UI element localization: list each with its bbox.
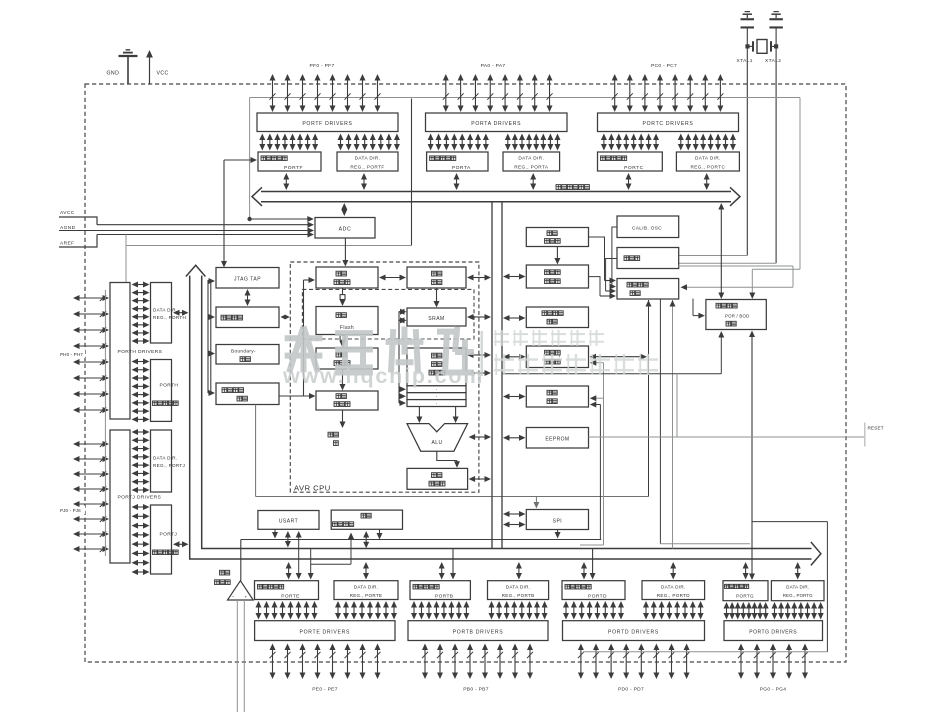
arrow into JTAG TAP (209, 278, 216, 284)
data direction register PORTE box (334, 581, 398, 600)
arrow stack pointer to data bus (467, 275, 491, 281)
EEPROM box (526, 428, 588, 449)
svg-text:PORTC: PORTC (624, 165, 644, 171)
watchdog timer box (526, 265, 588, 288)
arrow status register to data bus (469, 476, 491, 482)
label control lines (328, 432, 338, 445)
watermark text 元器件在线商城 (494, 354, 658, 375)
wire gray vertical to ADC with junction dot (247, 98, 313, 223)
capacitor C1 at XTAL1 (741, 15, 755, 29)
svg-text:PORTH: PORTH (160, 382, 179, 388)
label PORTH drivers (116, 347, 176, 355)
svg-text:DATA DIR.: DATA DIR. (786, 584, 809, 589)
capacitor C2 at XTAL2 (769, 15, 783, 29)
pin label GND (107, 71, 120, 77)
watermark divider bar (481, 331, 483, 376)
arrows PORTE registers to drivers (256, 601, 398, 620)
oscillator box (617, 248, 679, 269)
pin arrows PD0 - PD7 (578, 644, 690, 680)
ground symbol GND (119, 50, 138, 84)
wire horizontal below USART (241, 539, 601, 541)
data direction register PORTF box (337, 152, 398, 171)
svg-text:PH0 - PH7: PH0 - PH7 (60, 352, 83, 357)
arrow data dir register PORTA to bus (530, 173, 536, 190)
svg-text:XTAL2: XTAL2 (765, 58, 781, 64)
svg-text:AVR CPU: AVR CPU (294, 484, 331, 493)
PORTD drivers box (563, 621, 705, 641)
arrow bus to data dir register PORTD (670, 562, 676, 580)
svg-text:PORTF: PORTF (284, 165, 303, 171)
svg-text:REG., PORTJ: REG., PORTJ (153, 463, 185, 468)
svg-text:PORTH DRIVERS: PORTH DRIVERS (118, 349, 163, 355)
data register PORTD box (562, 581, 625, 600)
PORTE drivers box (255, 621, 395, 641)
wire comparator output (240, 540, 242, 581)
svg-text:ALU: ALU (432, 440, 443, 446)
ADC converter box (315, 218, 375, 239)
arrow timer counters to vertical wire (590, 354, 648, 360)
arrow MCU control to bus (503, 315, 526, 321)
arrow bus to data register PORTG (743, 562, 749, 580)
data register PORTH box (151, 360, 179, 422)
analog comparator triangle (228, 581, 254, 600)
programming logic box (216, 383, 279, 405)
PORTH drivers box (110, 283, 130, 420)
label PORTJ drivers (116, 493, 176, 501)
wire into JTAG TAP from top (221, 160, 227, 268)
svg-text:USART: USART (279, 519, 298, 525)
data direction register PORTC box (676, 152, 739, 171)
svg-text:PORTA: PORTA (452, 165, 471, 171)
arrows PORTA drivers to registers (428, 134, 561, 151)
svg-text:PORTB: PORTB (435, 594, 453, 600)
arrow decoder to control lines (340, 410, 346, 428)
PORTC drivers box (598, 113, 739, 132)
JTAG TAP box (216, 268, 279, 289)
pin label XTAL1 (737, 58, 753, 64)
power supervision POR BOD reset box (706, 300, 766, 330)
arrow bus to data register PORTB (439, 562, 445, 580)
status register box (407, 468, 468, 489)
svg-text:PORTA DRIVERS: PORTA DRIVERS (471, 121, 521, 127)
svg-text:PORTD DRIVERS: PORTD DRIVERS (608, 629, 659, 635)
pin RESET (865, 423, 884, 447)
svg-text:DATA DIR.: DATA DIR. (518, 156, 544, 161)
arrow SRAM to data bus (467, 314, 491, 320)
wire bus to power supervision bottom horizontal (502, 373, 721, 375)
wire gray through left pins (104, 290, 106, 556)
data direction register PORTB box (488, 581, 549, 600)
svg-text:GND: GND (107, 71, 120, 77)
pin label PA0 - PA7 (481, 63, 506, 69)
arrows SPI to bus (503, 511, 526, 528)
pin AGND (59, 225, 314, 234)
arrows PORTC drivers to registers (601, 134, 736, 151)
label analog comparator (215, 570, 231, 584)
wire programming logic to SPI top (gray) (256, 405, 649, 509)
arrows serial interface to wires (363, 530, 382, 549)
svg-text:·: · (435, 401, 437, 407)
wire bus to power supervision (718, 203, 724, 299)
wire bus to program counter (342, 239, 348, 267)
arrow stack pointer to SRAM (434, 288, 440, 308)
svg-text:AVCC: AVCC (60, 210, 75, 216)
PORTA drivers box (426, 113, 568, 132)
arrow bus to data register PORTE (286, 562, 292, 580)
PORTB drivers box (408, 621, 548, 641)
svg-text:Boundary-: Boundary- (231, 349, 256, 355)
svg-text:−: − (231, 594, 234, 599)
data register PORTC box (598, 152, 663, 171)
register Z row (407, 400, 466, 407)
arrow bus to data dir register PORTB (516, 562, 522, 580)
wire power supervision bottom feed (718, 331, 724, 374)
svg-text:www.hqchip.com: www.hqchip.com (282, 364, 484, 388)
wires timing control down verticals (646, 299, 751, 549)
pin label PC0 - PC7 (651, 63, 677, 69)
svg-text:POR / BOD: POR / BOD (725, 314, 750, 319)
svg-text:PG0 - PG4: PG0 - PG4 (760, 687, 787, 693)
svg-text:PJ0 - PJ6: PJ0 - PJ6 (60, 508, 81, 513)
pin arrows PH0 - PH7 (73, 295, 109, 413)
wire routing around PORTG (752, 522, 827, 652)
svg-text:REG., PORTB: REG., PORTB (502, 593, 535, 598)
pin arrows PE0 - PE7 (270, 644, 381, 680)
svg-text:PORTJ DRIVERS: PORTJ DRIVERS (118, 495, 162, 501)
svg-text:XTAL1: XTAL1 (737, 58, 753, 64)
USART box (258, 511, 319, 530)
universal serial interface box (331, 510, 402, 529)
arrow into programming logic (208, 390, 215, 396)
wires into timer and interrupt right edges (580, 360, 604, 545)
svg-text:DATA DIR.: DATA DIR. (355, 156, 381, 161)
svg-text:PE0 - PE7: PE0 - PE7 (312, 687, 338, 693)
general purpose registers box (407, 348, 466, 386)
pin arrows PJ0 - PJ6 (73, 441, 109, 552)
data register PORTJ box (151, 505, 179, 574)
arrow watchdog to bus (503, 274, 526, 280)
svg-text:PA0 - PA7: PA0 - PA7 (481, 63, 506, 69)
wire clock routing gray top (250, 98, 800, 300)
label AVR CPU (294, 484, 331, 493)
svg-text:DATA DIR.: DATA DIR. (506, 584, 530, 589)
svg-text:AREF: AREF (60, 241, 74, 247)
svg-text:REG., PORTD: REG., PORTD (657, 593, 690, 598)
arrow JTAG TAP to on-chip debug (245, 289, 251, 306)
svg-text:DATA DIR.: DATA DIR. (153, 456, 177, 461)
arrow internal oscillator to watchdog (554, 247, 560, 265)
svg-text:REG., PORTF: REG., PORTF (350, 165, 384, 170)
arrow timer counters to bus (503, 354, 526, 360)
register X row (407, 386, 466, 393)
arrows PORTH drivers to data register (132, 359, 150, 423)
VCC supply arrow (146, 50, 153, 84)
Boundary-scan box (216, 345, 279, 365)
data direction register PORTG box (771, 581, 824, 601)
svg-text:REG., PORTC: REG., PORTC (691, 165, 726, 170)
instruction decoder box (316, 391, 378, 410)
wires comparator inputs (237, 600, 244, 712)
svg-text:REG., PORTG: REG., PORTG (783, 593, 813, 598)
pin arrows PF0-PF7 (270, 74, 381, 112)
PORTF drivers box (257, 113, 398, 132)
pin label PJ0 - PJ6 (59, 506, 85, 514)
wire gray through bottom right pins (583, 651, 828, 653)
instruction register box (316, 348, 378, 369)
svg-text:SPI: SPI (553, 518, 563, 524)
arrow wire to data register PORTB (450, 549, 456, 580)
arrow program counter to stack pointer (379, 275, 406, 281)
arrows general registers to ALU (416, 407, 458, 424)
svg-text:PB0 - PB7: PB0 - PB7 (463, 687, 489, 693)
svg-text:DATA DIR.: DATA DIR. (354, 584, 378, 589)
data register PORTF box (258, 152, 321, 171)
arrows PORTG registers to drivers (724, 602, 824, 620)
pin arrows PB0 - PB7 (422, 644, 533, 680)
AVR CPU dashed box (290, 262, 479, 492)
pin label VCC (157, 71, 169, 77)
watermark text 华强集团旗下 (494, 330, 604, 346)
svg-text:PORTC DRIVERS: PORTC DRIVERS (643, 121, 694, 127)
bus 8-bit data bus top (252, 187, 740, 206)
SPI box (526, 510, 588, 530)
pin label PD0 - PD7 (618, 687, 644, 693)
svg-text:PC0 - PC7: PC0 - PC7 (651, 63, 677, 69)
data direction register PORTJ box (151, 430, 186, 492)
wire programming logic to decoder and program counter (279, 277, 316, 399)
svg-text:DATA DIR.: DATA DIR. (153, 307, 177, 312)
arrow data register PORTA to bus (454, 173, 460, 190)
wire timing control to power supervision (693, 299, 705, 319)
pin arrows PG0 - PG4 (738, 644, 808, 680)
PORTJ drivers box (110, 430, 130, 563)
svg-text:DATA DIR.: DATA DIR. (661, 584, 685, 589)
arrow bus to data dir register PORTE (363, 562, 369, 580)
wires into timing control from oscillators (589, 227, 618, 299)
wire XTAL1 to oscillator (679, 29, 748, 256)
arrows PORTB registers to drivers (411, 601, 548, 620)
bus label 8-bit data bus (556, 185, 589, 190)
wire reset circuit gray (589, 374, 865, 437)
svg-text:EEPROM: EEPROM (545, 437, 569, 443)
data register PORTE box (255, 581, 319, 600)
arrow wire to data register PORTD (590, 549, 596, 580)
svg-text:Flash: Flash (340, 325, 354, 331)
pin label PF0 - PF7 (310, 63, 335, 69)
data register PORTB box (410, 581, 470, 600)
data register PORTG box (723, 581, 768, 601)
arrows PORTJ drivers to data dir reg (132, 429, 150, 493)
svg-text:PORTJ: PORTJ (160, 532, 178, 538)
wire ALU to status register (437, 451, 460, 468)
arrow EEPROM to bus (503, 435, 526, 441)
data direction register PORTD box (642, 581, 705, 600)
svg-text:SRAM: SRAM (428, 316, 444, 322)
ground for C1 (743, 12, 752, 15)
wire program counter to flash with node (340, 288, 346, 306)
wire USART through bus to PORTE register (296, 531, 302, 580)
arrow PORTH to vertical bus (173, 310, 189, 316)
pin label PE0 - PE7 (312, 687, 338, 693)
arrow ALU to data bus (469, 434, 491, 440)
arrow into on-chip debug (209, 314, 216, 320)
svg-text:PORTE: PORTE (281, 594, 299, 600)
memory dashed box (302, 289, 474, 339)
pin AVCC (59, 210, 314, 228)
wire analog reference gray (126, 235, 412, 283)
svg-text:VCC: VCC (157, 71, 169, 77)
arrow PORTJ to vertical bus (173, 541, 189, 547)
wire elbow to serial interface and PORTE register (308, 533, 354, 580)
SRAM box (407, 308, 466, 326)
wire dark vertical x411 (411, 99, 413, 246)
watermark url www.hqchip.com (282, 364, 484, 388)
pin arrows PC0-PC7 (612, 74, 724, 112)
data register PORTA box (427, 152, 488, 171)
arrow instruction register to decoder (340, 369, 346, 391)
bus central vertical pair (492, 203, 502, 549)
svg-text:PORTE DRIVERS: PORTE DRIVERS (299, 629, 350, 635)
pin label XTAL2 (765, 58, 781, 64)
arrows general registers to data bus (467, 352, 491, 376)
pin arrows PA0-PA7 (443, 74, 553, 112)
timing generation control box (617, 279, 679, 300)
arrow interrupt unit to bus (503, 394, 526, 400)
svg-text:PORTB DRIVERS: PORTB DRIVERS (453, 629, 504, 635)
wire flash to instruction register with node (340, 335, 346, 348)
wire SRAM to pointer registers (398, 309, 407, 406)
arrow into Boundary-scan (209, 351, 216, 357)
arrows PORTF drivers to registers (259, 134, 400, 151)
program flash box (316, 307, 378, 335)
MCU control and timing box (526, 307, 588, 328)
arrows PORTJ drivers to data register (132, 504, 150, 575)
arrows USART to wires (272, 530, 291, 548)
arrows PORTD registers to drivers (563, 601, 704, 620)
interrupt unit box (526, 386, 588, 407)
timer counters box (526, 346, 588, 368)
arrow data register PORTC to bus (626, 173, 632, 190)
register Y row (407, 393, 466, 400)
pin label PG0 - PG4 (760, 687, 787, 693)
data direction register PORTH box (151, 283, 187, 344)
arrow bus to data register PORTD (581, 562, 587, 580)
wire oscillator wrap to timing control right (678, 266, 793, 290)
on-chip debug box (216, 307, 279, 328)
wire XTAL2 to oscillator (679, 29, 776, 264)
svg-text:RESET: RESET (868, 426, 884, 431)
wire power supervision to portG register (749, 331, 755, 581)
wire branch to PORTF data register (224, 157, 257, 163)
pin AREF (59, 232, 314, 248)
arrow bus to data dir register PORTG (795, 562, 801, 580)
watermark big text 华强芯城 (285, 327, 474, 373)
arrow data register PORTF to bus (283, 173, 289, 190)
svg-text:PORTG DRIVERS: PORTG DRIVERS (749, 629, 797, 635)
svg-text:JTAG TAP: JTAG TAP (234, 277, 261, 283)
svg-text:PORTG: PORTG (736, 594, 754, 599)
outer chip dashed border (85, 84, 846, 662)
svg-text:PORTF DRIVERS: PORTF DRIVERS (302, 121, 352, 127)
bus vertical data bus with up arrow and bottom bus to right arrow (186, 265, 821, 565)
pin label PB0 - PB7 (463, 687, 489, 693)
crystal Y1 (745, 40, 778, 54)
CALIB OSC box (617, 216, 679, 238)
arrows PORTH drivers to data dir reg (132, 282, 150, 345)
PORTG drivers box (724, 621, 823, 641)
data direction register PORTA box (503, 152, 560, 171)
svg-text:/: / (559, 354, 561, 359)
arrow data dir register PORTF to bus (361, 173, 367, 190)
svg-text:REG., PORTE: REG., PORTE (350, 593, 383, 598)
arrow SPI down to wire (555, 530, 561, 539)
ground for C2 (771, 12, 780, 15)
pin label PH0 - PH7 (59, 350, 85, 358)
svg-text:CALIB. OSC: CALIB. OSC (632, 226, 662, 232)
svg-text:PORTD: PORTD (588, 594, 607, 600)
arrow data dir register PORTC to bus (704, 173, 710, 190)
svg-text:DATA DIR.: DATA DIR. (695, 156, 721, 161)
svg-text:+: + (244, 595, 247, 600)
internal oscillator box (526, 228, 588, 247)
ALU unit (407, 424, 468, 452)
arrow ADC to bus (341, 203, 347, 216)
svg-text:REG., PORTH: REG., PORTH (153, 315, 186, 320)
svg-text:PD0 - PD7: PD0 - PD7 (618, 687, 644, 693)
wire JTAG vertical pair (208, 280, 211, 393)
svg-text:PF0 - PF7: PF0 - PF7 (310, 63, 335, 69)
svg-text:ADC: ADC (339, 227, 352, 233)
stack pointer box (407, 267, 466, 288)
program counter box (316, 267, 378, 288)
arrow on-chip debug to CPU (281, 315, 290, 320)
svg-text:REG., PORTA: REG., PORTA (514, 165, 549, 170)
